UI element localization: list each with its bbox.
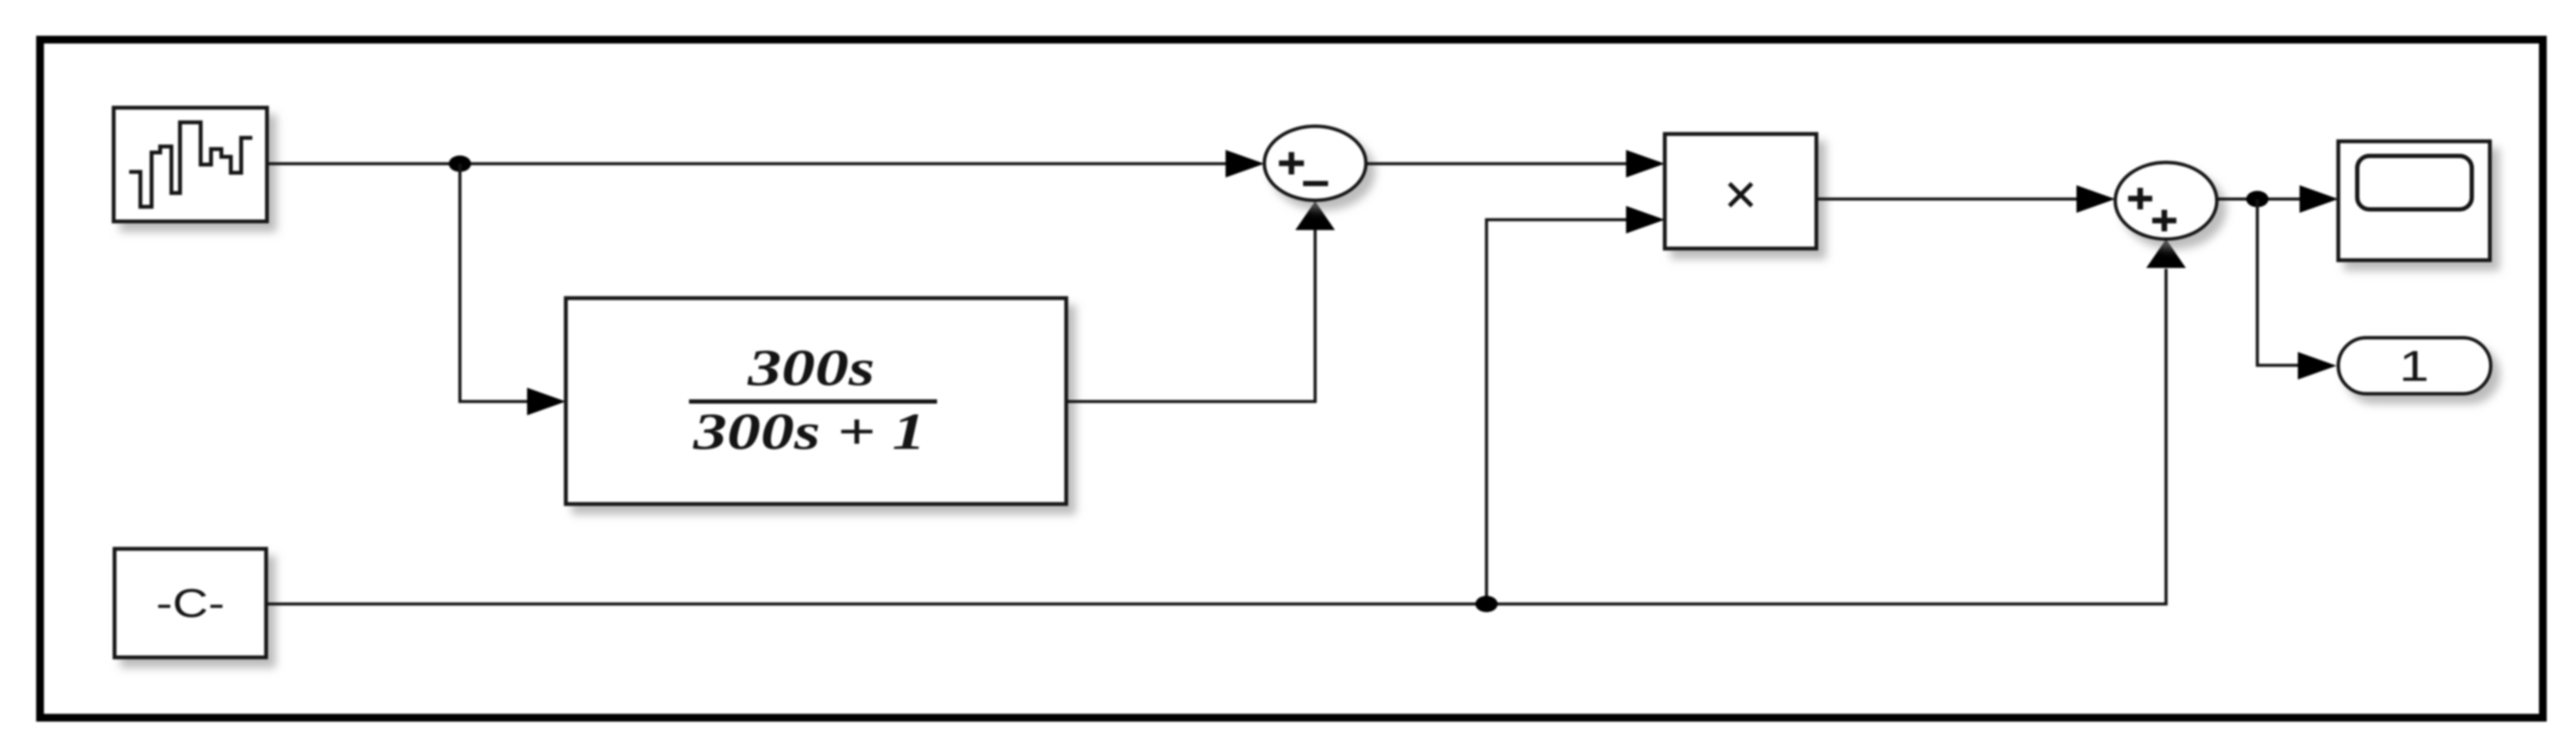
junction node on signal wire — [449, 156, 471, 172]
arrowhead into sum2 left input — [2076, 185, 2115, 213]
sum1 minus sign — [1303, 181, 1328, 186]
scope block — [2338, 141, 2490, 260]
junction node on sum2 output — [2246, 191, 2269, 208]
constant label — [156, 582, 225, 626]
wire: branch down to transfer function — [460, 164, 527, 402]
svg-text:300s: 300s — [747, 339, 874, 396]
arrowhead into product input 2 — [1626, 206, 1665, 233]
transfer function block — [566, 298, 1066, 504]
fraction bar — [689, 400, 937, 404]
wire: branch down to outport — [2257, 199, 2299, 365]
denominator 300s + 1 — [692, 403, 926, 460]
product block — [1665, 134, 1816, 249]
sum2 plus sign (left input) — [2128, 196, 2152, 202]
sum block 2 — [2115, 163, 2217, 240]
wire: signal builder output to sum1 — [267, 162, 1228, 165]
svg-text:-C-: -C- — [156, 582, 225, 626]
outport label 1 — [2399, 342, 2430, 390]
sum2 plus sign (bottom input) — [2152, 218, 2176, 224]
junction node on constant wire — [1475, 596, 1498, 613]
arrowhead into sum2 bottom input — [2146, 240, 2186, 269]
wire: sum2 output to scope — [2217, 197, 2300, 201]
arrowhead into product input 1 — [1626, 150, 1665, 177]
wire: sum1 output to product — [1366, 162, 1628, 165]
sum1 plus sign — [1279, 160, 1304, 166]
product multiply symbol — [1729, 184, 1752, 206]
arrowhead into scope — [2300, 185, 2338, 213]
wire: constant branch up to product input 2 — [1487, 220, 1628, 604]
arrowhead into outport — [2298, 352, 2337, 380]
outport block 1 — [2338, 338, 2491, 394]
arrowhead into transfer function — [527, 388, 566, 415]
numerator 300s — [747, 339, 874, 396]
signal builder block — [114, 108, 267, 221]
constant block -C- — [115, 549, 266, 657]
wire: product output to sum2 — [1816, 197, 2076, 201]
sum block 1 — [1264, 127, 1366, 201]
wire: constant output to sum2 bottom — [266, 269, 2166, 604]
arrowhead into sum1 bottom input — [1295, 202, 1335, 231]
signal builder waveform icon — [129, 122, 252, 207]
wire: transfer function output up to sum1 bottom — [1066, 229, 1315, 402]
svg-text:300s + 1: 300s + 1 — [692, 403, 926, 460]
scope screen — [2357, 156, 2472, 209]
svg-text:1: 1 — [2399, 342, 2430, 390]
arrowhead into sum1 left input — [1226, 150, 1264, 177]
